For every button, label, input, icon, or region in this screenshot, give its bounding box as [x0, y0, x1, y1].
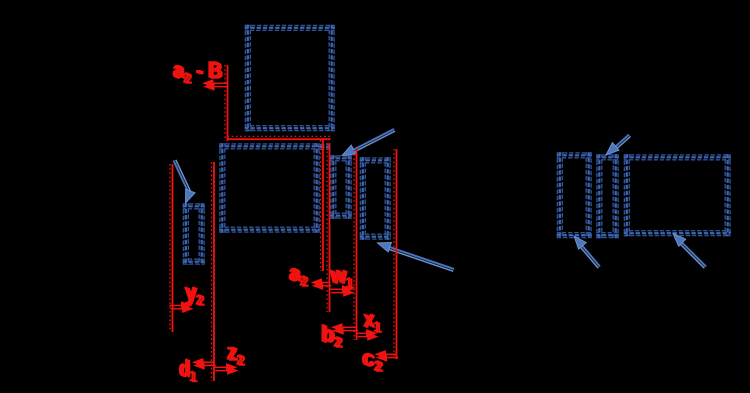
label y2 [184, 278, 205, 309]
layer rectangle top (overlay plan view) [245, 25, 335, 131]
extension line x=214 [212, 162, 215, 381]
arrow for a2-B [202, 79, 229, 91]
right group rectangle D [596, 154, 618, 238]
label d1 [178, 357, 198, 386]
leader arrow to rectangle C [574, 236, 600, 268]
arrow for a2 [311, 278, 332, 290]
rectangle B (edge strip) [360, 157, 391, 239]
leader arrow to rectangle D [606, 135, 631, 156]
svg-text:a2 - B: a2 - B [175, 59, 224, 87]
elbow vertical x=227 [225, 65, 228, 141]
narrow rectangle A (gap strip) [330, 155, 351, 218]
label b2 [320, 321, 343, 352]
arrow for x1 [357, 329, 379, 341]
label a2 - B [172, 58, 223, 87]
arrow for y2 [170, 301, 194, 313]
extension line x=396 [394, 149, 397, 359]
label z2 [226, 339, 245, 369]
narrow rectangle left (frame strip) [183, 203, 205, 264]
extension line x=329 [327, 143, 330, 312]
arrow for c2 [375, 350, 399, 362]
extension line x=172 [170, 164, 173, 332]
right group rectangle E [624, 154, 731, 236]
arrow for d1 [192, 358, 216, 370]
label a2 [288, 259, 309, 290]
right group rectangle C [557, 152, 592, 238]
leader arrow to rectangle E [673, 234, 706, 269]
arrow for z2 [214, 363, 239, 375]
arrow for b2 [331, 323, 358, 335]
leader arrow to strip A [342, 129, 395, 156]
arrow for w1 [330, 285, 355, 297]
middle rectangle top-edge extension [320, 144, 331, 149]
leader arrow to left strip [174, 160, 196, 203]
label x1 [363, 307, 383, 336]
layer rectangle middle (resonator body) [219, 143, 319, 232]
extension line x=323 [321, 140, 324, 271]
elbow horizontal line y=139 [227, 136, 331, 139]
label c2 [361, 345, 383, 376]
label w1 [329, 262, 355, 292]
long leader arrow to strip B [378, 242, 455, 271]
extension line x=356 [354, 150, 357, 340]
